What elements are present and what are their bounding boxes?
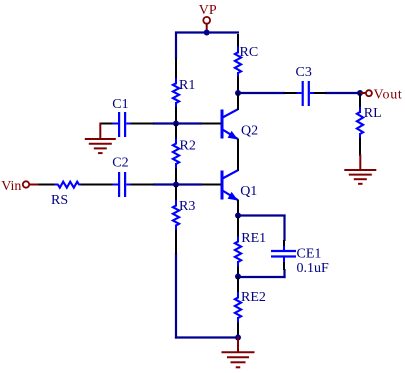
- resistor RC: [235, 47, 241, 78]
- ground at C1: [85, 123, 116, 154]
- pin Q2 emitter: [237, 139, 239, 172]
- label C2: [112, 156, 128, 171]
- power port VP: [199, 3, 217, 33]
- label RC: [240, 45, 259, 60]
- pin C3 left: [284, 92, 297, 94]
- pin C2 right: [131, 184, 155, 186]
- resistor R2: [173, 139, 179, 170]
- svg-text:CE1: CE1: [297, 247, 322, 262]
- wire C3 to Vout node: [325, 92, 361, 94]
- svg-text:RL: RL: [364, 106, 382, 121]
- transistor Q2: [222, 109, 238, 139]
- pin RL bottom: [359, 138, 361, 156]
- svg-text:C1: C1: [112, 97, 128, 112]
- pin R3 top: [175, 185, 177, 202]
- pin R1 bottom: [175, 107, 177, 124]
- wire C1 node to Q2 base: [153, 122, 202, 124]
- junction ground node: [235, 335, 241, 341]
- label CE1: [297, 247, 322, 262]
- wire bottom rail to ground node: [175, 336, 238, 338]
- capacitor C2: [113, 172, 132, 197]
- junction node below RE1: [235, 274, 241, 280]
- label C1: [112, 97, 128, 112]
- pin RL top: [359, 93, 361, 108]
- wire emitter node to CE1 branch: [238, 214, 286, 216]
- junction VP node: [204, 30, 210, 36]
- transistor Q1: [222, 170, 238, 200]
- svg-text:VP: VP: [199, 3, 217, 18]
- pin R2 bottom: [175, 168, 177, 186]
- label C3: [296, 65, 312, 80]
- svg-text:Vin: Vin: [1, 179, 21, 194]
- label R2: [180, 139, 196, 154]
- junction node upper bias (C1/R1/R2/Q2 base): [173, 121, 179, 127]
- pin RE1 top: [237, 216, 239, 238]
- svg-text:RE1: RE1: [241, 231, 266, 246]
- label R3: [179, 199, 195, 214]
- port Vin: [1, 179, 38, 194]
- svg-text:R2: R2: [180, 139, 196, 154]
- pin RE2 bottom: [237, 323, 239, 339]
- pin C3 right: [314, 92, 326, 94]
- capacitor C3: [297, 81, 316, 106]
- junction emitter node above RE1: [235, 213, 241, 219]
- pin RE1 bottom: [237, 267, 239, 278]
- pin R1 top: [175, 58, 177, 79]
- resistor RE1: [235, 237, 241, 268]
- value label 0.1uF: [297, 261, 330, 276]
- wire left bus lower: [175, 253, 177, 339]
- capacitor CE1: [271, 246, 296, 263]
- ground at bottom: [222, 337, 255, 368]
- svg-text:RE2: RE2: [241, 290, 266, 305]
- label RS: [51, 193, 68, 208]
- pin RC bottom: [237, 77, 239, 95]
- wire CE1 branch right lower: [283, 269, 285, 278]
- pin C1 right: [131, 123, 155, 125]
- pin Q2 collector: [237, 93, 239, 110]
- label Q1: [240, 184, 257, 199]
- pin Q2 base: [202, 123, 221, 125]
- label R1: [179, 78, 195, 93]
- wire CE1 branch bottom: [238, 276, 286, 278]
- svg-text:Q1: Q1: [240, 184, 257, 199]
- pin CE1 top: [283, 240, 285, 247]
- svg-text:R1: R1: [179, 78, 195, 93]
- junction node lower bias (C2/R2/R3/Q1 base): [173, 182, 179, 188]
- svg-text:C2: C2: [112, 156, 128, 171]
- resistor R3: [173, 200, 179, 231]
- pin R3 bottom: [175, 230, 177, 254]
- pin R2 top: [175, 124, 177, 140]
- wire CE1 branch right upper: [283, 215, 285, 242]
- svg-text:Q2: Q2: [241, 124, 258, 139]
- resistor RL: [357, 107, 363, 139]
- port Vout: [360, 88, 403, 103]
- wire collector node to C3: [238, 92, 285, 94]
- pin RE2 top: [237, 277, 239, 294]
- svg-text:0.1uF: 0.1uF: [297, 261, 330, 276]
- junction Vout node: [357, 90, 363, 96]
- svg-text:R3: R3: [179, 199, 195, 214]
- pin CE1 bottom: [283, 262, 285, 270]
- resistor R1: [173, 78, 179, 108]
- capacitor C1: [113, 112, 132, 137]
- pin Q1 emitter: [237, 200, 239, 217]
- svg-text:RC: RC: [240, 45, 259, 60]
- label Q2: [241, 124, 258, 139]
- svg-text:C3: C3: [296, 65, 312, 80]
- wire left bus upper: [175, 32, 177, 60]
- pin RS left: [39, 184, 56, 186]
- pin RS right to C2: [81, 184, 114, 186]
- label RL: [364, 106, 382, 121]
- pin Q1 base: [202, 184, 221, 186]
- pin RC top: [237, 34, 239, 48]
- resistor RE2: [235, 292, 241, 324]
- pin C1 left: [100, 123, 113, 125]
- label RE2: [241, 290, 266, 305]
- resistor RS: [55, 182, 82, 188]
- label RE1: [241, 231, 266, 246]
- svg-text:Vout: Vout: [374, 88, 403, 103]
- svg-text:RS: RS: [51, 193, 68, 208]
- ground at RL: [344, 154, 376, 184]
- wire top rail from R1 to RC: [175, 31, 239, 33]
- wire C2 node to Q1 base: [153, 183, 202, 185]
- junction collector node (RC/Q2 collector/C3): [235, 90, 241, 96]
